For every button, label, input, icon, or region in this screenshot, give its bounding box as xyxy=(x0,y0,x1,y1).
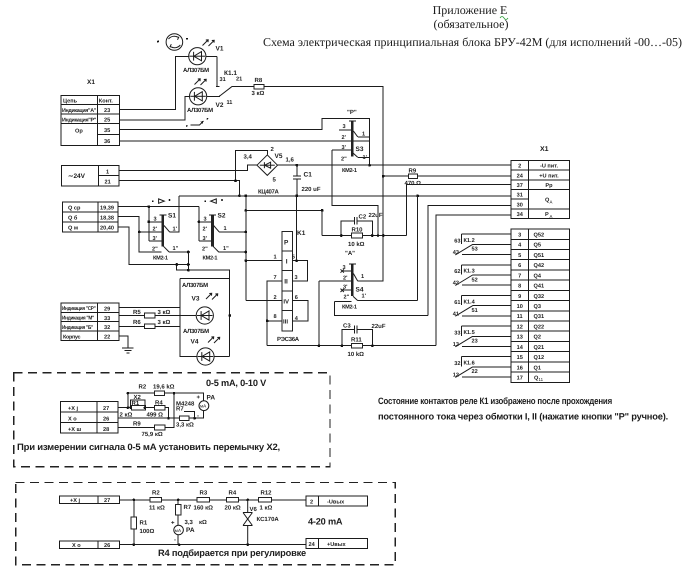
svg-text:1': 1' xyxy=(362,293,367,299)
svg-text:24: 24 xyxy=(309,542,316,548)
svg-text:Х о: Х о xyxy=(72,543,81,549)
svg-text:32: 32 xyxy=(104,325,110,331)
wire row24 through R9 xyxy=(383,175,511,177)
svg-text:+Uвых: +Uвых xyxy=(327,542,347,548)
svg-text:52: 52 xyxy=(472,277,478,283)
LED V1 xyxy=(183,40,224,74)
svg-text:R2: R2 xyxy=(139,384,147,391)
wire row26 box2 xyxy=(120,544,307,546)
svg-text:7: 7 xyxy=(274,275,277,281)
svg-text:X1: X1 xyxy=(87,79,95,86)
svg-text:14: 14 xyxy=(517,345,524,351)
connector Xj table box1 xyxy=(60,402,118,434)
svg-text:12: 12 xyxy=(517,324,523,330)
svg-text:8: 8 xyxy=(518,284,521,290)
svg-text:КМ2-1: КМ2-1 xyxy=(342,168,357,174)
svg-text:3 кΩ: 3 кΩ xyxy=(252,90,265,97)
svg-text:K1: K1 xyxy=(297,230,306,237)
svg-text:3,3: 3,3 xyxy=(185,519,194,526)
svg-text:R5: R5 xyxy=(133,309,141,316)
spellcheck wavy underline xyxy=(500,17,508,20)
svg-text:20 кΩ: 20 кΩ xyxy=(225,505,241,512)
svg-text:18,38: 18,38 xyxy=(100,216,114,222)
connector ~24V box xyxy=(62,165,120,186)
svg-text:V1: V1 xyxy=(216,46,224,53)
svg-text:3: 3 xyxy=(154,216,157,222)
svg-text:31: 31 xyxy=(517,193,523,199)
svg-text:Цепь: Цепь xyxy=(63,99,78,105)
resistor R3 box2 xyxy=(197,498,210,503)
svg-text:Q41: Q41 xyxy=(534,284,545,290)
svg-text:10: 10 xyxy=(517,304,523,310)
wire S3 3'-descender to C2 bus xyxy=(332,150,378,235)
svg-text:26: 26 xyxy=(104,543,110,549)
svg-text:S1: S1 xyxy=(168,213,176,220)
wire R2 branch xyxy=(128,393,204,407)
relay K1 coil РЭС36А xyxy=(274,230,306,343)
dashed box 0-5 mA xyxy=(14,373,330,467)
svg-text:К1.4: К1.4 xyxy=(464,299,476,305)
button contact S4 KM2-1 xyxy=(319,236,428,316)
svg-text:Схема электрическая принципиал: Схема электрическая принципиальная блока… xyxy=(263,35,682,49)
wire V1 to K1.1 to R8 to rail xyxy=(232,87,384,236)
svg-text:15: 15 xyxy=(517,355,523,361)
wire relay pin2 xyxy=(246,300,282,302)
svg-text:+Х ј: +Х ј xyxy=(70,497,81,504)
resistor R6 xyxy=(133,319,171,328)
svg-text:3,3 кΩ: 3,3 кΩ xyxy=(176,422,194,429)
svg-text:Состояние контактов реле К1 из: Состояние контактов реле К1 изображено п… xyxy=(378,396,612,406)
svg-text:АЛ307БМ: АЛ307БМ xyxy=(182,282,208,289)
svg-text:28: 28 xyxy=(103,427,109,433)
svg-text:2': 2' xyxy=(343,275,348,281)
svg-text:43: 43 xyxy=(453,250,459,256)
wire row26 through R7 to meter xyxy=(118,411,204,419)
svg-text:29: 29 xyxy=(104,306,110,312)
relay contact К1.6 xyxy=(453,357,511,379)
relay contact K1.1 xyxy=(206,56,242,105)
ground xyxy=(119,336,133,353)
svg-text:17: 17 xyxy=(517,376,523,382)
svg-text:470 Ω: 470 Ω xyxy=(405,180,422,187)
svg-text:Приложение Е: Приложение Е xyxy=(433,3,508,17)
svg-text:C1: C1 xyxy=(304,172,313,179)
wire relay pin6-4 loop xyxy=(293,301,308,321)
wire relay pin1 xyxy=(246,260,282,262)
svg-text:2: 2 xyxy=(274,295,277,301)
svg-text:Конт.: Конт. xyxy=(99,99,113,105)
svg-text:4-20 mA: 4-20 mA xyxy=(308,517,343,527)
svg-text:R8: R8 xyxy=(255,77,263,84)
svg-text:2': 2' xyxy=(203,227,208,233)
dashed box 4-20 mA xyxy=(16,483,396,565)
connector Q table xyxy=(63,202,119,232)
svg-text:2 кΩ: 2 кΩ xyxy=(120,412,133,419)
svg-text:2': 2' xyxy=(342,135,347,141)
capacitor C3 with resistor R11 xyxy=(342,323,386,358)
svg-text:3: 3 xyxy=(518,233,521,239)
svg-text:31: 31 xyxy=(220,77,226,83)
svg-text:37: 37 xyxy=(517,183,523,189)
LED V3 xyxy=(182,282,218,324)
svg-text:27: 27 xyxy=(103,406,109,412)
svg-text:+Х ј: +Х ј xyxy=(68,405,79,412)
svg-text:33: 33 xyxy=(454,330,460,336)
svg-text:Q ср: Q ср xyxy=(68,206,81,212)
svg-text:R4: R4 xyxy=(229,489,237,496)
svg-text:РЭС36А: РЭС36А xyxy=(277,336,300,343)
pushbutton symbol S1 xyxy=(152,199,171,203)
svg-text:22uF: 22uF xyxy=(369,212,383,219)
resistor R1 box2 vertical xyxy=(133,500,135,545)
wire Qb row xyxy=(118,217,161,253)
svg-text:R11: R11 xyxy=(351,337,362,344)
svg-text:8: 8 xyxy=(274,314,277,320)
svg-text:Q21: Q21 xyxy=(534,345,545,351)
connector +Xj box2 xyxy=(59,496,119,504)
svg-text:6: 6 xyxy=(518,263,521,269)
svg-text:62: 62 xyxy=(454,269,460,275)
connector X1 right lower table xyxy=(511,229,570,382)
wire S2 to C2 node xyxy=(246,210,322,235)
svg-text:R4: R4 xyxy=(155,399,163,406)
svg-text:кΩ: кΩ xyxy=(199,519,207,526)
svg-text:30: 30 xyxy=(517,202,523,208)
capacitor C1 xyxy=(293,165,321,196)
wire row28 through R9b xyxy=(118,393,174,427)
wire row37 to C2 bus xyxy=(407,184,511,235)
rotary actuator symbol (circle with arrows) xyxy=(157,34,188,51)
svg-text:X1: X1 xyxy=(540,146,549,153)
resistor R7 box2 vertical with meter PA xyxy=(177,500,179,545)
svg-text:V5: V5 xyxy=(275,153,283,160)
svg-text:1': 1' xyxy=(173,227,178,233)
jumper X2 xyxy=(131,400,145,407)
svg-text:-Uвых: -Uвых xyxy=(327,500,345,506)
svg-text:13: 13 xyxy=(517,335,523,341)
svg-text:Индикация "Б": Индикация "Б" xyxy=(62,325,94,331)
bridge rectifier V5 KC407A xyxy=(244,146,295,196)
svg-text:S3: S3 xyxy=(356,146,364,153)
svg-text:Корпус: Корпус xyxy=(63,335,80,341)
svg-text:-: - xyxy=(174,538,176,544)
A-bus xyxy=(267,345,436,347)
svg-text:V2: V2 xyxy=(216,102,224,109)
svg-text:Pp: Pp xyxy=(545,183,553,189)
LED V4 xyxy=(183,328,220,365)
svg-text:R1: R1 xyxy=(140,520,148,527)
svg-text:Q31: Q31 xyxy=(534,314,545,320)
button contact S2 KM2-1 xyxy=(198,207,246,262)
svg-text:27: 27 xyxy=(104,498,110,504)
svg-text:мА: мА xyxy=(175,528,182,533)
relay contact К1.2 xyxy=(453,234,511,256)
svg-text:R3: R3 xyxy=(200,489,208,496)
svg-text:3': 3' xyxy=(343,285,348,291)
svg-text:II: II xyxy=(284,279,288,286)
svg-text:Q52: Q52 xyxy=(534,233,545,239)
svg-text:22: 22 xyxy=(472,369,478,375)
zener V6 KC170A xyxy=(243,500,279,545)
wire row36 xyxy=(120,140,370,142)
svg-text:3,4: 3,4 xyxy=(244,153,253,160)
svg-text:I: I xyxy=(286,259,288,266)
svg-text:КМ2-1: КМ2-1 xyxy=(153,255,168,261)
svg-text:24: 24 xyxy=(517,173,524,179)
connector X1 upper-left table xyxy=(61,79,120,146)
svg-text:21: 21 xyxy=(105,180,111,186)
resistor R2 box2 xyxy=(150,498,162,503)
svg-text:11: 11 xyxy=(539,377,544,382)
svg-text:2: 2 xyxy=(518,164,521,170)
svg-text:Q51: Q51 xyxy=(534,253,545,259)
svg-text:2: 2 xyxy=(310,500,313,506)
svg-text:Q42: Q42 xyxy=(534,263,545,269)
svg-text:3': 3' xyxy=(342,145,347,151)
wire 24V row21 to 0-rail xyxy=(119,181,239,196)
note text xyxy=(378,396,668,422)
svg-text:61: 61 xyxy=(454,300,460,306)
svg-text:Х2: Х2 xyxy=(134,394,142,401)
svg-text:PA: PA xyxy=(207,395,216,402)
wire Qcp row xyxy=(118,206,199,208)
wire C1-minus to relay pin5 xyxy=(296,196,298,261)
wire S4-2' to A-bus xyxy=(318,281,320,346)
svg-text:"А": "А" xyxy=(345,250,355,257)
wire row29 xyxy=(119,307,180,309)
wire bridge top loop xyxy=(236,151,268,181)
svg-text:IV: IV xyxy=(283,299,289,306)
connector X1 right upper table xyxy=(511,146,570,219)
svg-text:КМ2-1: КМ2-1 xyxy=(203,255,218,261)
V3 V4 loop box xyxy=(180,278,230,356)
svg-text:3': 3' xyxy=(153,236,158,242)
wire +rail xyxy=(278,164,511,166)
svg-text:R9: R9 xyxy=(409,167,417,174)
wire relay pin7-8 to A-bus xyxy=(267,281,282,346)
svg-text:34: 34 xyxy=(517,212,524,218)
svg-text:3: 3 xyxy=(343,265,346,271)
button contact S3 KM2-1 with P frame xyxy=(332,109,369,174)
svg-text:23: 23 xyxy=(472,339,478,345)
svg-text:АЛ307БМ: АЛ307БМ xyxy=(183,328,209,335)
svg-text:2": 2" xyxy=(344,294,350,300)
svg-text:R12: R12 xyxy=(261,489,273,496)
svg-text:63: 63 xyxy=(454,239,460,245)
svg-text:Индикация "СР": Индикация "СР" xyxy=(62,306,96,312)
svg-text:К1.6: К1.6 xyxy=(464,361,475,367)
svg-text:9: 9 xyxy=(518,294,521,300)
svg-text:+Х ш: +Х ш xyxy=(68,427,82,433)
LED V2 xyxy=(187,79,224,114)
svg-text:Q32: Q32 xyxy=(534,294,545,300)
wire row27 box2 xyxy=(120,499,307,501)
resistor R1 box1 xyxy=(132,405,146,410)
svg-text:Q3: Q3 xyxy=(534,304,541,310)
svg-text:22uF: 22uF xyxy=(372,323,386,330)
svg-text:R2: R2 xyxy=(152,489,160,496)
svg-text:1": 1" xyxy=(223,246,229,252)
svg-text:499 Ω: 499 Ω xyxy=(147,412,164,419)
svg-text:100Ω: 100Ω xyxy=(140,528,155,535)
svg-text:V3: V3 xyxy=(192,296,200,303)
svg-text:"Р": "Р" xyxy=(347,109,357,116)
svg-text:3 кΩ: 3 кΩ xyxy=(158,319,171,326)
svg-text:PA: PA xyxy=(186,527,195,534)
svg-text:Q1: Q1 xyxy=(534,365,541,371)
resistor R5 xyxy=(133,309,171,318)
svg-text:К1.3: К1.3 xyxy=(464,269,475,275)
svg-text:3: 3 xyxy=(204,216,207,222)
svg-text:Q5: Q5 xyxy=(534,243,541,249)
svg-text:+U пит.: +U пит. xyxy=(539,173,559,179)
svg-text:Индикация"А": Индикация"А" xyxy=(62,108,97,114)
svg-text:Q12: Q12 xyxy=(534,355,545,361)
resistor R9 box1 xyxy=(155,425,165,430)
pushbutton symbol S2 xyxy=(204,199,223,203)
svg-text:11: 11 xyxy=(517,314,523,320)
svg-text:20,40: 20,40 xyxy=(100,226,114,232)
svg-text:1: 1 xyxy=(274,255,277,261)
svg-text:Q4: Q4 xyxy=(534,273,542,279)
svg-text:3: 3 xyxy=(343,124,346,130)
svg-text:∼24V: ∼24V xyxy=(68,173,86,180)
wire relay pin5-3 loop xyxy=(293,261,308,281)
svg-text:160 кΩ: 160 кΩ xyxy=(194,505,214,512)
wire V2 right to K1.1 pivot xyxy=(207,95,220,98)
svg-text:1': 1' xyxy=(363,155,368,161)
svg-text:19,39: 19,39 xyxy=(100,206,114,212)
svg-text:1: 1 xyxy=(361,274,364,280)
svg-text:При измерении сигнала 0-5 мА у: При измерении сигнала 0-5 мА установить … xyxy=(17,442,280,452)
svg-text:75,9 кΩ: 75,9 кΩ xyxy=(142,431,163,438)
svg-text:11: 11 xyxy=(227,100,233,106)
wire Qm row xyxy=(118,227,188,265)
resistor R2 box1 xyxy=(154,391,164,395)
connector indication table lower-left xyxy=(61,303,119,341)
svg-text:5: 5 xyxy=(292,255,295,261)
wire 24V row1 to bridge xyxy=(119,165,257,170)
wire row34 to A-bus xyxy=(436,215,511,346)
svg-text:13: 13 xyxy=(453,342,459,348)
svg-text:6: 6 xyxy=(295,295,298,301)
svg-text:1: 1 xyxy=(224,226,227,232)
relay contact К1.5 xyxy=(453,326,511,348)
svg-text:10 kΩ: 10 kΩ xyxy=(348,351,365,358)
svg-text:1: 1 xyxy=(106,170,109,176)
wire Qm-net to loop top xyxy=(177,265,230,279)
svg-text:35: 35 xyxy=(104,128,110,134)
svg-text:41: 41 xyxy=(453,311,459,317)
svg-text:R4 подбирается при регулировке: R4 подбирается при регулировке xyxy=(158,548,306,558)
svg-text:R10: R10 xyxy=(352,227,364,234)
svg-text:C2: C2 xyxy=(359,214,367,221)
svg-text:Х о: Х о xyxy=(68,416,77,422)
svg-text:22: 22 xyxy=(104,335,110,341)
resistor R4 box1 xyxy=(154,405,164,410)
wire S-common vertical to relay xyxy=(245,196,247,301)
svg-text:12: 12 xyxy=(453,373,459,379)
svg-text:постоянного тока через обмотки: постоянного тока через обмотки I, II (на… xyxy=(378,412,668,422)
svg-text:53: 53 xyxy=(472,247,478,253)
svg-text:1 кΩ: 1 кΩ xyxy=(260,505,273,512)
connector -Uout xyxy=(306,496,368,506)
svg-text:Q22: Q22 xyxy=(534,324,545,330)
svg-text:26: 26 xyxy=(103,416,109,422)
resistor R7 box1 xyxy=(180,416,190,421)
svg-text:220 uF: 220 uF xyxy=(302,186,321,193)
wire row27 chain xyxy=(118,408,169,419)
svg-text:+: + xyxy=(171,521,175,527)
svg-text:1": 1" xyxy=(173,246,179,252)
svg-text:КМ2-1: КМ2-1 xyxy=(342,304,357,310)
meter PA box1 xyxy=(199,401,209,411)
svg-text:32: 32 xyxy=(454,361,460,367)
svg-text:R7: R7 xyxy=(176,405,184,412)
svg-text:Индикация"Р": Индикация"Р" xyxy=(62,117,97,123)
svg-text:КЦ407А: КЦ407А xyxy=(258,189,280,196)
button contact S1 KM2-1 xyxy=(147,196,189,262)
svg-text:16: 16 xyxy=(517,365,523,371)
wire 0-rail xyxy=(179,195,511,197)
svg-text:Q м: Q м xyxy=(68,226,78,232)
resistor R4 box2 xyxy=(226,498,238,503)
svg-text:0-5 mA, 0-10 V: 0-5 mA, 0-10 V xyxy=(206,378,267,388)
svg-text:R9: R9 xyxy=(133,421,141,428)
capacitor C2 with resistor R10 xyxy=(322,212,406,248)
wire row30 to S4 lower xyxy=(428,205,511,315)
svg-text:11 кΩ: 11 кΩ xyxy=(149,505,165,512)
connector +Uout xyxy=(306,538,368,548)
wire row33 through R5 to V3 xyxy=(119,315,196,317)
svg-text:Р: Р xyxy=(284,240,289,247)
svg-text:(обязательное): (обязательное) xyxy=(434,17,509,31)
svg-text:Q2: Q2 xyxy=(534,335,541,341)
svg-text:S2: S2 xyxy=(218,213,226,220)
pushbutton actuator symbol at V2 xyxy=(186,118,209,127)
svg-text:Q б: Q б xyxy=(68,215,78,222)
svg-text:+: + xyxy=(197,395,201,401)
svg-text:3: 3 xyxy=(295,275,298,281)
svg-text:1,6: 1,6 xyxy=(286,157,295,164)
wire row35 xyxy=(120,118,370,165)
svg-text:S4: S4 xyxy=(356,286,364,293)
svg-text:51: 51 xyxy=(472,308,478,314)
resistor R8 xyxy=(252,77,265,97)
wire row32 through R6 xyxy=(119,325,180,327)
svg-text:К1.5: К1.5 xyxy=(464,330,475,336)
svg-text:V6: V6 xyxy=(250,506,258,513)
svg-text:R7: R7 xyxy=(184,504,192,511)
svg-text:25: 25 xyxy=(104,117,110,123)
svg-text:33: 33 xyxy=(104,316,110,322)
relay contact К1.3 xyxy=(453,265,511,287)
svg-text:III: III xyxy=(283,319,288,326)
svg-text:3': 3' xyxy=(203,236,208,242)
svg-text:2": 2" xyxy=(152,247,158,253)
svg-text:23: 23 xyxy=(104,108,110,114)
svg-text:Индикация "М": Индикация "М" xyxy=(62,316,95,322)
wire row23 to V1 xyxy=(120,57,189,110)
svg-text:2": 2" xyxy=(341,156,347,162)
svg-text:C3: C3 xyxy=(343,323,351,330)
svg-text:5: 5 xyxy=(518,253,521,259)
svg-text:-U пит.: -U пит. xyxy=(540,164,559,170)
connector Xo box2 xyxy=(59,541,119,549)
svg-text:К1.2: К1.2 xyxy=(464,238,475,244)
wire row31 to S4 xyxy=(418,196,511,301)
svg-text:36: 36 xyxy=(104,139,110,145)
